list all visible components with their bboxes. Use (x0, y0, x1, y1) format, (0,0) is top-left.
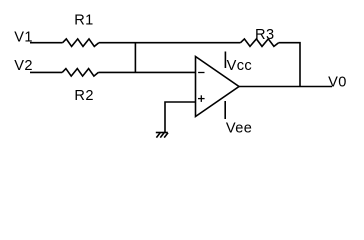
wire op-amp output to V0 (238, 86, 332, 88)
pin minus (inverting input) (198, 72, 204, 74)
wire Vee stub (224, 101, 226, 119)
resistor R2 (62, 69, 98, 77)
resistor R1 (63, 39, 99, 47)
ground (156, 133, 168, 138)
pin plus (non-inverting input) (198, 95, 205, 102)
wire V1 to R1 (30, 42, 63, 44)
wire R2 to op-amp inverting input (98, 71, 195, 73)
svg-text:R1: R1 (74, 13, 93, 29)
wire non-inverting input to ground (165, 102, 196, 132)
wire V2 to R2 (30, 71, 62, 73)
svg-text:Vcc: Vcc (227, 58, 253, 74)
svg-text:R3: R3 (255, 27, 274, 43)
svg-text:V0: V0 (328, 75, 347, 91)
op-amp U1 (196, 57, 240, 117)
svg-text:Vee: Vee (226, 121, 252, 137)
wire Vcc stub (224, 52, 226, 69)
wire summing junction vertical (134, 43, 136, 73)
svg-text:R2: R2 (74, 88, 93, 104)
resistor R3 (241, 39, 279, 47)
wire R1 to summing node and R3 (99, 42, 241, 44)
wire R3 to output corner (279, 43, 300, 87)
